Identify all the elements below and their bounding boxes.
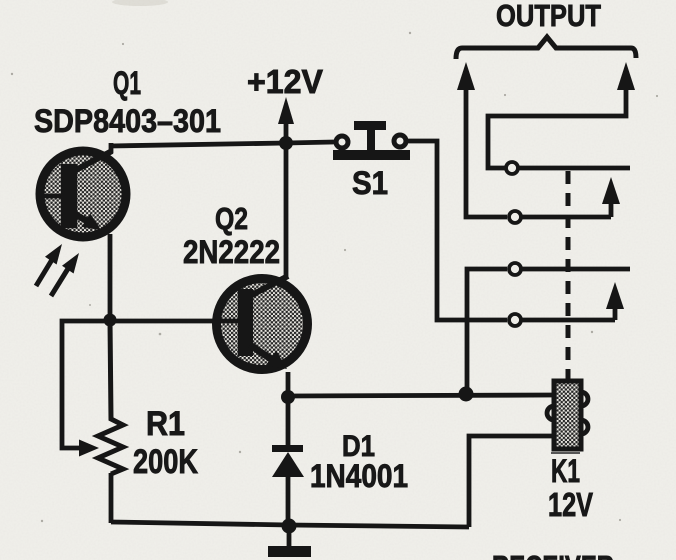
svg-text:R1: R1	[146, 405, 185, 443]
ground symbol	[268, 526, 311, 557]
wire: Q1 collector to +12V node to S1	[110, 142, 334, 146]
light arrow 2	[51, 253, 79, 296]
scan smudge top edge	[112, 0, 168, 6]
ground rail	[111, 522, 469, 527]
power arrow +12V	[278, 97, 294, 143]
wire row 2 to arrow	[522, 215, 611, 220]
relay contact circle row 4	[509, 314, 521, 326]
junction dot Q2 emitter node	[281, 390, 295, 404]
wire: S1 to relay contact row 4	[407, 141, 507, 320]
junction dot relay rail	[459, 387, 474, 402]
wire: relay drive rail	[288, 395, 554, 396]
switch S1	[333, 121, 410, 160]
svg-text:1N4001: 1N4001	[310, 458, 408, 494]
phototransistor Q1	[40, 143, 126, 237]
relay contact circle row 3	[509, 263, 521, 275]
svg-text:Q2: Q2	[215, 201, 248, 236]
svg-text:+12V: +12V	[247, 63, 323, 100]
wire row 3 stub	[522, 267, 630, 272]
wire: R1 wiper loop	[62, 321, 110, 448]
svg-text:12V: 12V	[548, 486, 593, 523]
brace under OUTPUT	[456, 37, 636, 59]
dashed relay actuator line	[566, 171, 571, 380]
svg-text:Q1: Q1	[113, 65, 141, 101]
output arrow right tall	[488, 62, 635, 168]
svg-text:OUTPUT: OUTPUT	[496, 0, 601, 33]
wire: Q2 collector up to +12V node	[284, 143, 289, 277]
junction dot ground node	[282, 519, 297, 534]
wire: Q1 emitter down to base node	[108, 234, 113, 321]
svg-text:200K: 200K	[133, 443, 198, 481]
wire row 3 elbow down to relay node	[467, 269, 507, 394]
relay contact circle row 1	[506, 162, 518, 174]
relay contact circle row 2	[509, 211, 521, 223]
wire: R1 bottom to ground rail	[109, 473, 114, 523]
wire row 1 stub	[519, 166, 630, 171]
wire: Q2 emitter down to relay rail	[286, 372, 291, 397]
svg-text:SDP8403–301: SDP8403–301	[34, 103, 221, 139]
light arrow 1	[36, 244, 62, 286]
relay coil K1	[547, 381, 588, 453]
wire row 4 to arrow	[522, 318, 615, 323]
wire: ground rail riser to relay bottom	[469, 436, 554, 527]
transistor Q2	[217, 276, 308, 370]
output arrow row 4	[606, 282, 624, 320]
junction dot +12V node	[279, 136, 293, 150]
svg-text:RECEIVER: RECEIVER	[492, 549, 614, 560]
resistor R1	[98, 321, 123, 474]
wiper arrowhead	[79, 440, 99, 457]
junction dot base node	[104, 314, 117, 327]
svg-text:S1: S1	[352, 165, 388, 201]
output arrow row 2	[602, 177, 620, 217]
diode D1	[272, 397, 304, 526]
svg-text:2N2222: 2N2222	[183, 234, 280, 270]
output arrow left tall	[457, 62, 507, 217]
svg-text:K1: K1	[551, 453, 580, 489]
wire: base rail from emitter node to Q2 base	[110, 319, 238, 324]
